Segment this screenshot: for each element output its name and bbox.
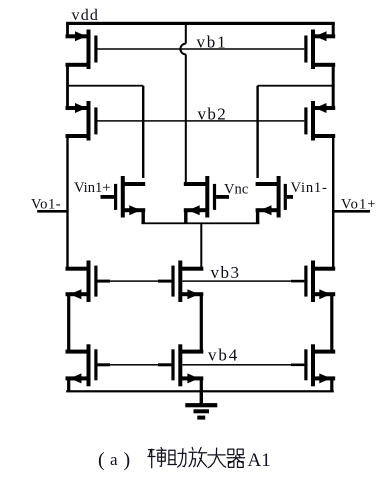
ground symbol [200,391,203,404]
wire: M1 drain to M3 source [66,65,69,108]
transistor MN8 (NMOS mirror, right) [311,344,315,386]
transistor M1 (PMOS current source, top-left) [87,30,91,70]
wire: net vb4 (right segment, MN6 drain-gate to MN8 gate) [182,364,304,366]
svg-text:Vo1-: Vo1- [31,196,61,212]
wire: M3 drain down left column to MN3 drain (node Vo1-) [66,136,68,269]
transistor M3 (PMOS cascode, left) [87,101,91,141]
svg-text:a: a [110,450,118,469]
wire: MN3 source to MN7 drain (left) [67,294,70,351]
wire: M2 drain to M4 source [332,65,335,108]
caption hanzi 放 [189,448,207,467]
transistor M0 (input device Vin1+) [121,176,125,218]
wire: net vb4 (left segment) [98,364,172,366]
wire: Vin1+ source to tail node [142,210,145,223]
wire: net vb3 (right segment, MN5 drain-gate to MN4 gate) [182,280,304,282]
svg-text:vb1: vb1 [197,33,228,52]
svg-text:A1: A1 [248,450,271,471]
transistor MN6 (NMOS mirror, middle) [178,344,182,386]
svg-text:Vin1+: Vin1+ [74,180,111,196]
wire: tail node rail [141,222,259,224]
wire: MN4 source to MN8 drain (right) [330,294,333,351]
transistor MN4 (NMOS cascode, right) [311,261,315,303]
transistor M4 (PMOS cascode, right) [311,101,315,141]
caption hanzi 助 [168,449,186,468]
power rail vdd (top) [66,22,335,25]
wire: MN6 source to ground rail (middle) [200,378,203,391]
ground rail (bottom) [66,390,334,392]
wire: M4 drain down right column to MN4 drain (node Vo1+) [332,136,334,269]
wire: tail node to MN5 drain [200,223,202,268]
svg-text:(: ( [98,449,105,471]
caption hanzi 器 [227,449,245,467]
wire: vdd rail to M1 source [66,23,69,36]
wire: Vnc source to tail node [184,210,187,223]
transistor M2 (PMOS current source, top-right) [311,30,315,70]
transistor MN7 (NMOS mirror, left) [87,344,91,386]
wire+label: output Vo1+ (right) [333,210,370,213]
wire: MN5 source to MN6 drain (middle) [200,294,203,351]
svg-text:vb3: vb3 [211,263,241,282]
wire: MN8 source to ground rail (right) [330,378,333,391]
svg-text:): ) [124,449,131,471]
wire: left fold node (M1 drain to M0 drain) [68,85,144,87]
wire: Vin1- source to tail node [256,210,259,223]
svg-text:Vnc: Vnc [224,182,249,198]
svg-text:vdd: vdd [72,7,100,24]
svg-text:vb4: vb4 [208,346,239,365]
transistor M6 (input device Vin1-) [277,176,281,218]
wire: MN7 source to ground rail (left) [67,378,70,391]
wire: right fold node (M2 drain to M6 drain) [258,85,334,87]
wire: net vb2 (gates of M3, M4) [98,120,305,122]
caption hanzi 辅 [148,448,166,468]
wire: vdd rail to M5 drain (center), hops over vb1 [185,23,187,43]
wire: net vb3 (left segment) [98,280,172,282]
transistor MN5 (NMOS cascode, middle) [178,261,182,303]
svg-text:Vin1-: Vin1- [291,180,328,196]
transistor MN3 (NMOS cascode, left) [87,261,91,303]
wire: vdd rail to M2 source [332,23,335,36]
svg-text:Vo1+: Vo1+ [341,196,376,212]
wire+label: output Vo1- (left) [37,210,67,213]
transistor M5 (input device Vnc) [205,176,209,218]
caption hanzi 大 [208,448,226,468]
svg-text:vb2: vb2 [198,105,228,124]
wire: net vb1 (gates of M1, M2) [98,48,305,50]
